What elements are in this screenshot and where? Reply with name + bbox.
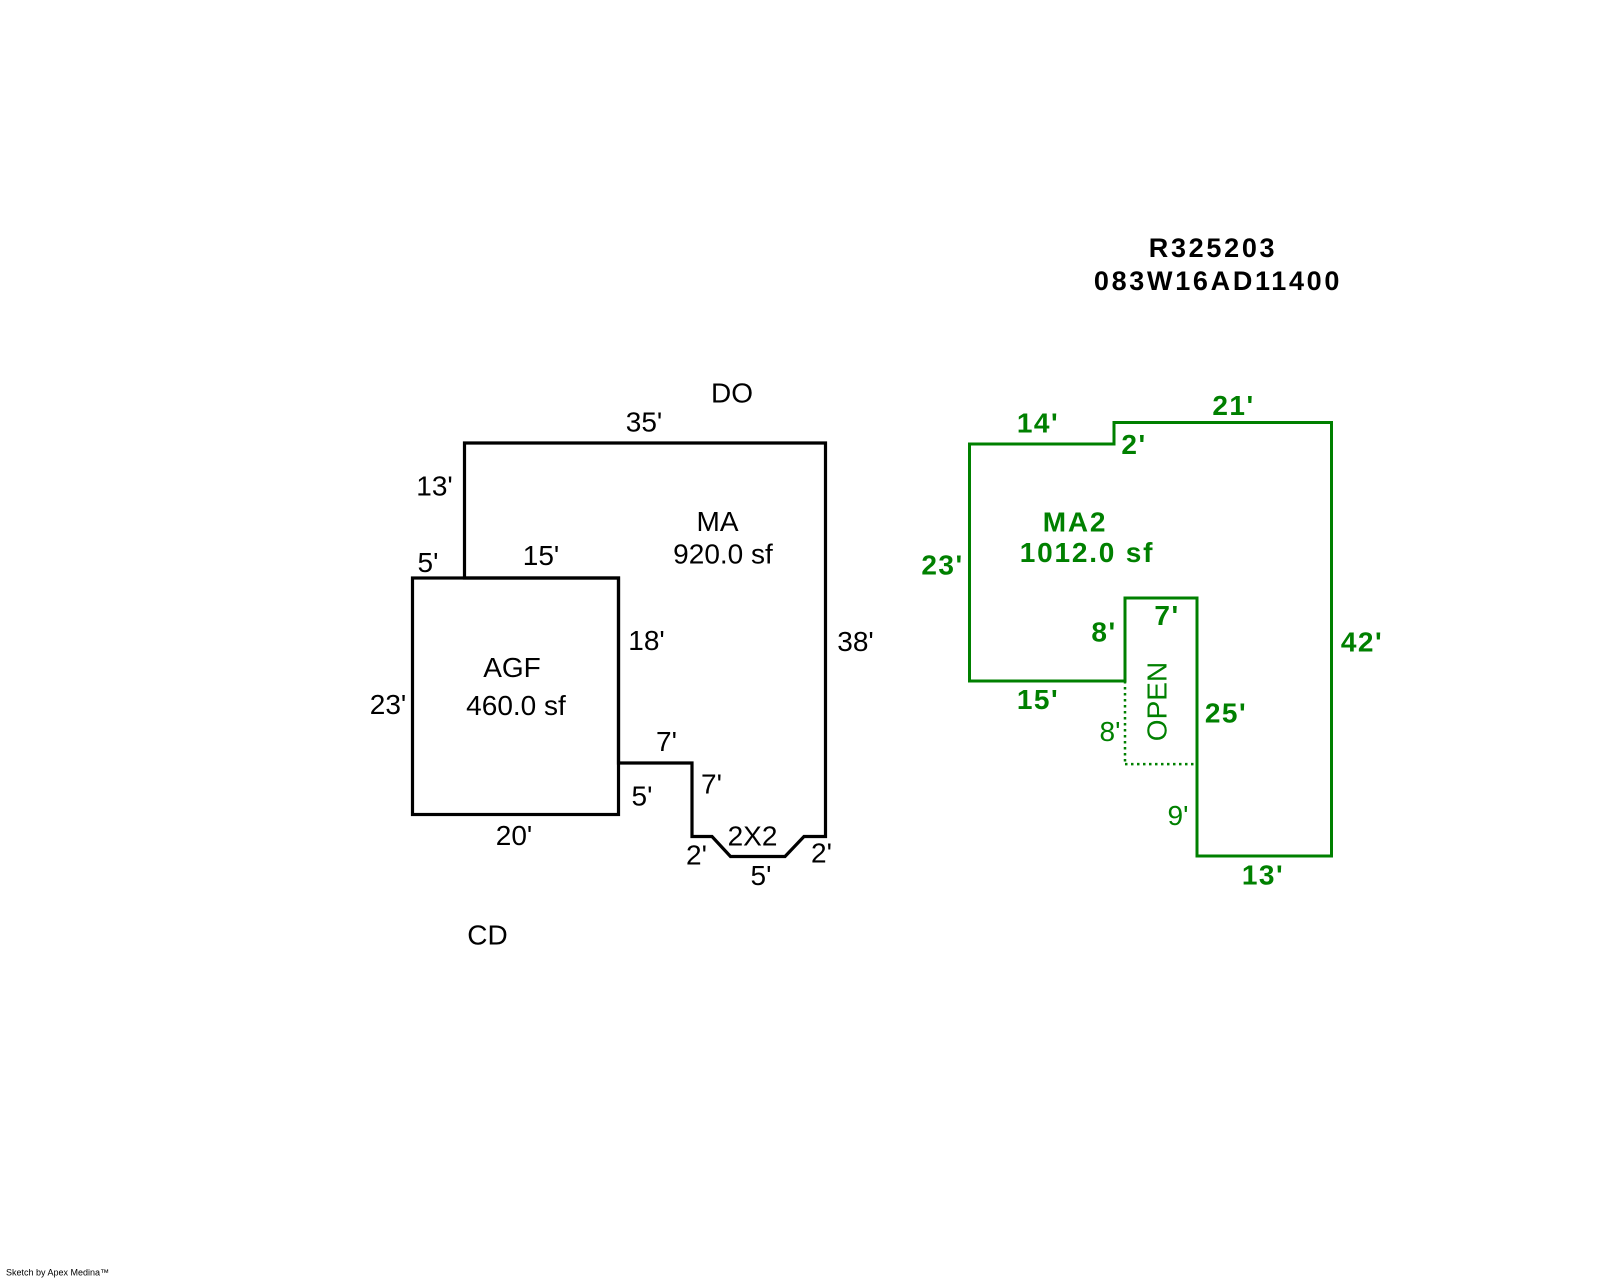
svg-text:083W16AD11400: 083W16AD11400	[1094, 266, 1342, 296]
svg-text:35': 35'	[626, 407, 663, 438]
svg-text:2': 2'	[811, 838, 832, 869]
svg-text:OPEN: OPEN	[1142, 662, 1173, 741]
svg-text:460.0 sf: 460.0 sf	[466, 690, 566, 721]
svg-text:MA: MA	[697, 506, 739, 537]
svg-text:7': 7'	[701, 769, 722, 800]
svg-text:8': 8'	[1091, 617, 1116, 648]
svg-text:18': 18'	[628, 625, 665, 656]
svg-text:AGF: AGF	[483, 652, 541, 683]
svg-text:42': 42'	[1341, 627, 1383, 658]
svg-text:MA2: MA2	[1043, 507, 1108, 538]
svg-text:13': 13'	[1242, 860, 1284, 891]
svg-text:5': 5'	[632, 781, 653, 812]
svg-text:38': 38'	[837, 626, 874, 657]
svg-text:23': 23'	[370, 689, 407, 720]
svg-text:23': 23'	[921, 550, 963, 581]
svg-text:DO: DO	[711, 378, 753, 409]
svg-text:CD: CD	[467, 920, 507, 951]
svg-text:R325203: R325203	[1149, 233, 1278, 263]
svg-text:15': 15'	[523, 540, 560, 571]
svg-text:1012.0 sf: 1012.0 sf	[1020, 537, 1155, 568]
svg-text:21': 21'	[1212, 390, 1254, 421]
svg-text:2X2: 2X2	[728, 821, 778, 852]
svg-text:Sketch by Apex Medina™: Sketch by Apex Medina™	[6, 1268, 109, 1278]
svg-text:7': 7'	[1154, 600, 1179, 631]
svg-text:25': 25'	[1205, 698, 1247, 729]
svg-text:7': 7'	[656, 726, 677, 757]
svg-text:20': 20'	[496, 820, 533, 851]
svg-text:2': 2'	[1121, 429, 1146, 460]
svg-text:9': 9'	[1168, 800, 1189, 831]
svg-text:2': 2'	[686, 840, 707, 871]
svg-text:8': 8'	[1100, 716, 1121, 747]
svg-text:5': 5'	[751, 860, 772, 891]
svg-text:5': 5'	[418, 547, 439, 578]
svg-text:13': 13'	[416, 471, 453, 502]
svg-text:15': 15'	[1017, 684, 1059, 715]
svg-text:14': 14'	[1017, 408, 1059, 439]
svg-text:920.0 sf: 920.0 sf	[673, 539, 773, 570]
